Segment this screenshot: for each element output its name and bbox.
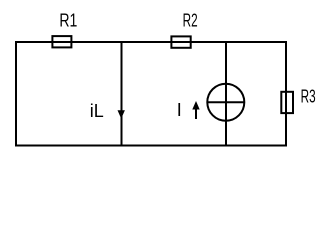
svg-text:R3: R3 (301, 86, 316, 106)
resistor R3 (281, 92, 293, 113)
wire current source branch (225, 42, 227, 146)
svg-text:I: I (177, 100, 182, 120)
svg-text:R2: R2 (183, 11, 198, 31)
resistor R2 (171, 36, 190, 47)
I source direction arrow shaft (up) (195, 106, 197, 119)
iL current arrowhead (down) (118, 110, 125, 118)
current source I1 circle (207, 84, 244, 121)
wire top (15, 41, 287, 43)
resistor R1 (52, 36, 71, 47)
wire middle branch (iL) (121, 42, 123, 146)
wire left (15, 41, 17, 147)
current source horizontal diameter line (207, 101, 244, 103)
wire bottom (15, 145, 287, 147)
svg-text:R1: R1 (59, 11, 77, 31)
svg-text:iL: iL (90, 101, 104, 121)
I source direction arrowhead (up) (192, 101, 199, 110)
wire right (285, 41, 287, 147)
